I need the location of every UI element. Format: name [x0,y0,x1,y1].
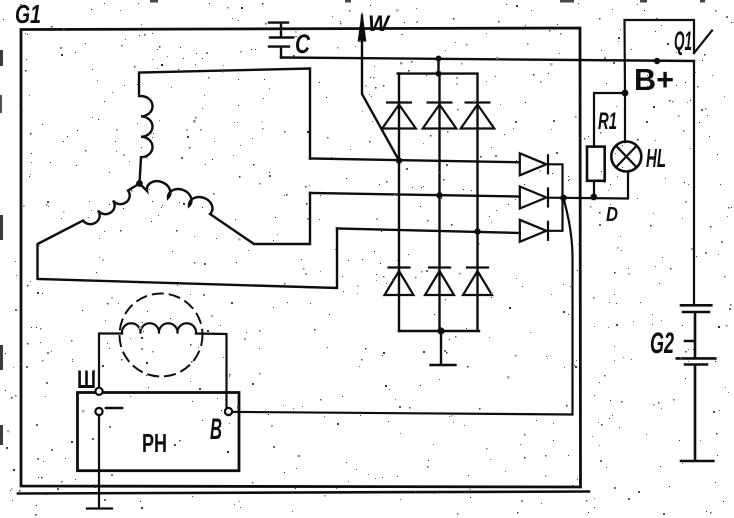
svg-text:B: B [210,413,222,446]
svg-text:Q1: Q1 [674,26,692,56]
svg-text:HL: HL [646,143,666,173]
svg-text:C: C [295,29,310,59]
svg-text:G2: G2 [650,327,674,360]
svg-text:D: D [606,204,618,226]
svg-text:R1: R1 [598,108,617,135]
svg-text:Ш: Ш [77,366,96,394]
svg-text:B+: B+ [634,62,674,97]
svg-text:G1: G1 [15,0,41,29]
svg-text:PH: PH [142,428,167,458]
svg-text:W: W [368,11,391,36]
